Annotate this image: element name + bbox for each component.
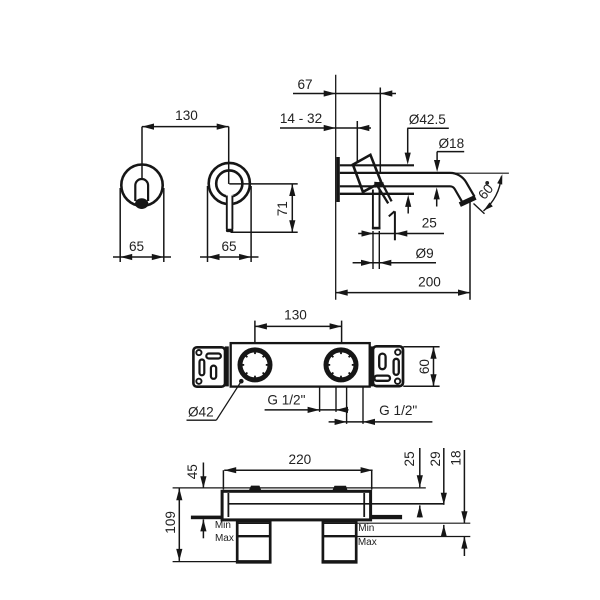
dimension diameter 9 (lever) — [353, 231, 436, 269]
dimension 45 — [185, 463, 207, 539]
dimension 65 (spout trim) — [113, 188, 171, 262]
svg-text:14 - 32: 14 - 32 — [280, 111, 322, 126]
dimension 130 (valve centers) — [255, 308, 342, 343]
Min wall line — [356, 522, 470, 524]
spout escutcheon front view — [121, 165, 162, 206]
body left end cap — [225, 346, 229, 386]
dimension 14 - 32 (wall thickness) — [280, 111, 371, 131]
G 1/2 right connection — [329, 387, 433, 425]
spout tip aerator cap — [460, 197, 476, 204]
svg-text:130: 130 — [284, 308, 307, 323]
left mounting bracket — [193, 347, 225, 386]
left bracket bar (edge view) — [191, 516, 222, 520]
dimension 18 (depth) — [449, 450, 468, 556]
right bracket bar (edge view) — [371, 515, 403, 519]
dimension 109 — [163, 488, 237, 561]
dimension 25 (depth) — [402, 448, 423, 518]
labels Min Max left — [215, 520, 234, 544]
spout base bottom line — [340, 193, 414, 195]
svg-text:130: 130 — [175, 108, 198, 123]
rough-in body (section) — [222, 491, 371, 520]
label 1 with leader — [389, 211, 395, 240]
dimension 71 (lever length) — [229, 184, 297, 232]
svg-text:200: 200 — [418, 274, 441, 289]
svg-text:G 1/2": G 1/2" — [267, 393, 305, 408]
valve body front view — [231, 343, 370, 387]
svg-text:109: 109 — [163, 511, 178, 534]
right valve cartridge spline — [326, 350, 356, 380]
svg-text:25: 25 — [402, 451, 417, 466]
svg-text:45: 45 — [185, 464, 200, 479]
svg-text:Max: Max — [358, 537, 377, 548]
svg-text:Min: Min — [215, 520, 231, 531]
fixing clip right — [332, 486, 347, 491]
svg-text:Ø9: Ø9 — [416, 246, 434, 261]
wall plane line (29 ref) — [229, 503, 444, 505]
svg-text:Ø42: Ø42 — [188, 404, 214, 419]
G 1/2 left connection — [265, 387, 349, 413]
spout outlet keyhole — [135, 179, 148, 209]
handle lever (side view) — [372, 182, 384, 230]
dimension 220 — [223, 452, 372, 490]
extension line 67 — [379, 88, 381, 173]
svg-text:25: 25 — [422, 216, 437, 231]
leader diameter 18 — [434, 136, 464, 172]
dimension 65 (handle trim) — [200, 186, 259, 262]
dimension 67 — [293, 77, 396, 97]
spout tube — [340, 173, 475, 203]
wall line — [335, 75, 337, 300]
extension line 14-32 — [356, 121, 358, 163]
handle lever open position — [377, 183, 392, 204]
svg-text:Ø18: Ø18 — [438, 136, 464, 151]
svg-text:71: 71 — [275, 201, 290, 216]
svg-text:65: 65 — [221, 239, 236, 254]
handle escutcheon front view — [209, 163, 250, 204]
fixing clip left — [249, 486, 261, 491]
svg-text:67: 67 — [297, 77, 312, 92]
svg-text:Min: Min — [358, 523, 374, 534]
arrow diameter 42.5 lower — [405, 195, 411, 214]
wall escutcheon plate (side) — [336, 157, 340, 202]
svg-text:220: 220 — [289, 452, 312, 467]
handle ring front view — [216, 170, 242, 196]
left supply block — [236, 521, 272, 562]
spout base top line — [340, 164, 414, 166]
right supply block — [322, 521, 358, 562]
arrow diameter 18 lower — [434, 187, 440, 206]
svg-text:65: 65 — [129, 239, 144, 254]
svg-text:Max: Max — [215, 533, 234, 544]
right mounting bracket — [373, 346, 403, 386]
body right end cap — [370, 346, 374, 386]
dimension 25 (side view) — [358, 216, 444, 237]
top reference line — [173, 487, 426, 489]
cartridge valve (side, rotated square) — [353, 155, 381, 192]
labels Min Max right — [358, 523, 377, 548]
handle lever front view — [226, 195, 233, 232]
angle dimension 60 deg — [446, 173, 509, 214]
dimension 200 (spout reach) — [336, 202, 470, 300]
svg-text:29: 29 — [428, 451, 443, 466]
dimension 60 (body height) — [403, 347, 439, 387]
svg-text:G 1/2": G 1/2" — [379, 403, 417, 418]
Max wall line — [356, 536, 470, 538]
label 60 deg — [475, 181, 496, 203]
leader diameter 42 (cartridge) — [187, 379, 244, 420]
dimension 29 (depth) — [428, 448, 447, 537]
svg-text:18: 18 — [449, 450, 464, 465]
svg-text:60: 60 — [417, 359, 432, 375]
leader diameter 42.5 — [405, 112, 449, 165]
svg-text:Ø42.5: Ø42.5 — [409, 112, 446, 127]
left valve cartridge spline — [240, 350, 270, 380]
dimension 130 (trim centers) — [142, 108, 229, 186]
